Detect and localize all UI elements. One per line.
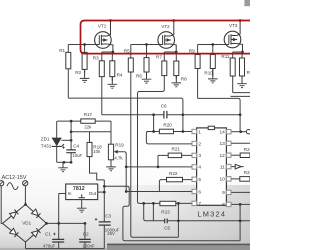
wire pin 13 exit — [231, 142, 250, 144]
wire C5 loop — [153, 203, 178, 237]
resistor R9 — [195, 55, 200, 69]
svg-text:13: 13 — [219, 141, 225, 147]
wire op-amp OUT1 bus to pin 1 — [68, 98, 183, 131]
regulator 7812 — [66, 184, 98, 200]
svg-text:1: 1 — [198, 129, 201, 135]
resistor R11 — [230, 58, 235, 76]
resistor R7 — [162, 61, 167, 76]
svg-text:R8: R8 — [181, 76, 187, 81]
wire VT3 source node — [233, 51, 243, 53]
svg-text:6: 6 — [198, 189, 201, 195]
svg-text:12: 12 — [219, 153, 225, 159]
svg-text:7: 7 — [198, 201, 201, 207]
transistor VT1 (MOSFET) — [95, 21, 113, 55]
wire R1 branch: gate wire down through R1 to bus — [67, 45, 69, 99]
svg-text:R23: R23 — [161, 210, 170, 215]
svg-text:R9: R9 — [189, 48, 195, 53]
wire C2 leads — [84, 223, 86, 248]
svg-text:R22: R22 — [169, 171, 178, 176]
wire R5 branch down long vertical to bottom loop — [131, 45, 179, 238]
bottom panel edge dark line (right half) — [107, 244, 250, 246]
svg-text:5: 5 — [198, 177, 201, 183]
wire VT2 source node — [164, 51, 176, 53]
wire pin 6 row — [126, 191, 192, 193]
wire R17 row — [57, 120, 111, 122]
wire lower right exit — [231, 95, 251, 97]
wire pin7 node down to lower bus — [144, 203, 250, 220]
svg-text:R10: R10 — [204, 71, 213, 76]
wire VT1 source node — [102, 51, 113, 53]
resistor R20 — [159, 129, 173, 134]
AC terminal 2 — [23, 181, 28, 186]
wire R8 leads — [175, 52, 177, 79]
svg-text:T431: T431 — [41, 143, 52, 148]
wire R11 leads to right edge — [233, 52, 250, 93]
wire pin 14 to terminal — [231, 131, 246, 133]
ground under R8 — [172, 76, 182, 87]
svg-text:VT2: VT2 — [161, 24, 170, 29]
svg-text:C3: C3 — [105, 214, 111, 219]
wire pin 10 exit — [231, 178, 250, 180]
wire AC terminal 1 down — [1, 186, 2, 224]
svg-text:2: 2 — [198, 141, 201, 147]
wire 7812 In riser — [58, 194, 60, 224]
gray page corner top-right — [244, 0, 250, 6]
resistor R24 — [240, 153, 250, 158]
wire pin 8 to right and down — [231, 204, 250, 240]
resistor R1 — [66, 52, 71, 68]
svg-text:C2: C2 — [83, 232, 89, 237]
ground under R19 — [106, 160, 116, 171]
wire pin 4 row — [126, 166, 192, 168]
svg-text:25V: 25V — [107, 231, 115, 236]
ground under R4 — [108, 77, 118, 89]
wire R3 leads — [101, 52, 103, 115]
svg-text:VT3: VT3 — [229, 23, 238, 28]
svg-text:R19: R19 — [115, 143, 124, 148]
wire ZD1/C4 ground row — [57, 161, 71, 163]
bridge rectifier VD1 — [3, 205, 47, 243]
wire 7812 Out — [98, 191, 105, 193]
svg-text:C6: C6 — [161, 104, 167, 109]
transistor VT3 (MOSFET) — [224, 21, 242, 55]
svg-text:11: 11 — [220, 164, 225, 170]
resistor R2 — [82, 52, 87, 69]
highlighted net: top rail — [81, 21, 251, 54]
LM324 pin stubs right — [226, 130, 231, 207]
resistor R21 — [168, 153, 181, 158]
wire R18 top row — [71, 131, 111, 133]
resistor R10 — [210, 55, 215, 69]
capacitor C6 — [164, 111, 167, 119]
svg-text:R3: R3 — [93, 55, 99, 60]
wire R22 riser and row to pin 5 — [159, 180, 192, 192]
ground under R2 — [80, 70, 90, 83]
wire loop to pin 2 — [146, 132, 192, 144]
wire R4 leads — [111, 52, 114, 81]
svg-text:R2: R2 — [75, 70, 81, 75]
resistor R6 — [144, 58, 149, 72]
svg-text:R11: R11 — [221, 54, 230, 59]
svg-text:C4: C4 — [73, 143, 79, 148]
svg-text:R6: R6 — [136, 73, 142, 78]
wire R20 row to pin 1 — [146, 131, 192, 133]
ground under R10 — [208, 69, 218, 83]
svg-text:4: 4 — [198, 165, 201, 171]
svg-text:C5: C5 — [164, 225, 170, 230]
wire pin 12 to R24 — [231, 154, 240, 156]
wire 12V riser to C3 — [103, 180, 105, 249]
wire ZD1 branch — [56, 121, 58, 162]
potentiometer R19 — [108, 144, 117, 160]
wire 12V feed right — [104, 186, 240, 241]
zener ZD1 (TL431) — [52, 138, 64, 147]
wire input bus y115 with C6 gap — [102, 114, 240, 116]
svg-text:ZD1: ZD1 — [41, 136, 50, 141]
wire pin 11 to supply arrow — [231, 166, 244, 168]
wire AC terminal 2 down — [24, 186, 26, 205]
svg-text:22k: 22k — [84, 124, 92, 129]
wire C4 riser — [70, 121, 72, 162]
wire VT3 gate — [198, 44, 229, 46]
wire R21 row to pin 3 — [158, 155, 192, 167]
LM324 pin stubs left — [192, 129, 197, 205]
LM324 pin numbers left — [198, 129, 201, 207]
resistor R12 — [240, 58, 245, 76]
resistor R17 — [81, 119, 95, 123]
resistor R18 — [87, 142, 92, 156]
svg-text:VT1: VT1 — [98, 24, 107, 29]
svg-text:10uF: 10uF — [72, 153, 82, 158]
wire raw DC rail — [47, 222, 86, 224]
capacitor C1 — [52, 233, 64, 242]
svg-text:R5: R5 — [124, 48, 130, 53]
wire pin 9 exit — [231, 191, 250, 193]
svg-text:R4: R4 — [117, 73, 123, 78]
ground under R6 — [142, 72, 152, 83]
wire R6 leads — [146, 45, 148, 77]
svg-text:In: In — [68, 191, 72, 196]
wire R19 wiper riser — [118, 152, 127, 192]
svg-text:R7: R7 — [156, 54, 162, 59]
resistor R3 — [99, 61, 104, 77]
svg-text:9: 9 — [222, 190, 225, 196]
resistor R22 — [167, 177, 183, 181]
supply arrow at pin 11 — [235, 164, 241, 169]
ground under R12 — [237, 76, 247, 88]
svg-text:8: 8 — [222, 202, 225, 208]
LM324 pin numbers right — [219, 130, 225, 209]
AC terminal 1 — [0, 181, 4, 186]
resistor R4 — [110, 61, 115, 77]
wire ground rail bottom — [26, 242, 105, 249]
svg-text:VD1: VD1 — [22, 221, 31, 226]
wire C6/R20 left node — [153, 115, 155, 132]
wire C1 leads — [58, 223, 60, 248]
wire R12 leads — [241, 52, 244, 81]
ground under 7812 — [77, 200, 87, 213]
svg-text:100nF: 100nF — [82, 243, 95, 248]
svg-text:Out: Out — [89, 191, 97, 196]
resistor R23 — [160, 201, 176, 205]
wire 7812 In — [59, 193, 66, 195]
wire R10 leads — [212, 45, 214, 77]
capacitor C4 — [62, 146, 76, 152]
svg-text:R25: R25 — [244, 170, 250, 175]
resistor R25 — [240, 177, 250, 182]
wire ZD1 ref line — [62, 139, 72, 141]
svg-text:4,7k: 4,7k — [114, 156, 123, 161]
svg-text:470uF: 470uF — [43, 244, 56, 249]
wire VT2 gate — [131, 44, 163, 46]
wire R7 sense chain to pin 7 — [138, 52, 192, 203]
svg-text:14: 14 — [219, 130, 225, 136]
svg-text:R12: R12 — [247, 70, 250, 75]
resistor R5 — [128, 58, 133, 72]
op-amp LM324 body — [197, 126, 227, 205]
transistor VT2 (MOSFET) — [158, 21, 176, 55]
capacitor C2 — [79, 239, 91, 242]
AC sine symbol — [7, 183, 18, 190]
svg-text:AC12-15V: AC12-15V — [2, 175, 27, 181]
capacitor C5 — [165, 219, 168, 224]
svg-text:R17: R17 — [84, 112, 93, 117]
resistor R8 — [174, 61, 179, 76]
wire R9 branch down to VT3 gate bus — [198, 45, 241, 132]
wire R2 lead and ground lead — [84, 45, 86, 74]
svg-text:R24: R24 — [244, 147, 250, 152]
svg-text:R1: R1 — [59, 48, 65, 53]
ground under ZD1/C4 — [58, 162, 68, 171]
wire VT1 gate — [68, 44, 99, 46]
svg-text:10: 10 — [219, 177, 225, 183]
svg-text:R21: R21 — [172, 147, 181, 152]
capacitor C3 — [95, 218, 111, 225]
svg-text:R20: R20 — [163, 122, 172, 127]
svg-text:LM324: LM324 — [197, 210, 226, 219]
svg-text:7812: 7812 — [73, 186, 85, 192]
svg-text:3: 3 — [198, 153, 201, 159]
terminal circle at pin 14 — [246, 130, 250, 134]
svg-text:C1: C1 — [45, 232, 51, 237]
wire R18 leads — [90, 132, 105, 180]
svg-text:10k: 10k — [93, 149, 101, 154]
wire R17 right corner down to R19 — [110, 121, 112, 144]
